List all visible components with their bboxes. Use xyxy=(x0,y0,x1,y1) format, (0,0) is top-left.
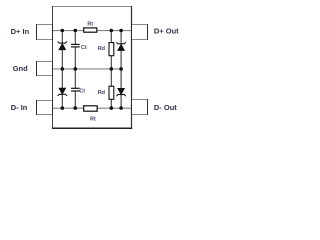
svg-text:D+ In: D+ In xyxy=(11,27,30,36)
svg-text:Ct: Ct xyxy=(81,45,87,51)
wire: column A vertical (left diodes) xyxy=(61,31,63,109)
zener diode top-left xyxy=(58,41,67,49)
resistor Rt (bottom) xyxy=(84,106,98,111)
svg-text:Ct: Ct xyxy=(79,89,85,95)
resistor Rt (top) xyxy=(84,28,97,32)
wire: top D+ line xyxy=(52,30,132,32)
wire: column B vertical upper (to cap Ct top) xyxy=(74,31,76,45)
svg-text:Gnd: Gnd xyxy=(13,64,28,73)
junction dot top wire col A xyxy=(61,29,65,33)
zener diode top-right xyxy=(116,42,125,50)
junction dot bottom wire col D xyxy=(119,106,123,110)
svg-text:D+ Out: D+ Out xyxy=(154,27,179,36)
svg-text:D- In: D- In xyxy=(11,103,28,112)
junction dot bottom wire col A xyxy=(61,106,65,110)
junction dot gnd rail col A xyxy=(61,67,65,71)
svg-text:Rd: Rd xyxy=(98,90,105,96)
junction dot top wire col D xyxy=(119,29,123,33)
junction dot gnd rail col B xyxy=(74,67,78,71)
wire: column C vertical (Rd resistors) xyxy=(110,31,112,109)
junction dot gnd rail col C xyxy=(110,67,114,71)
resistor Rd (top) xyxy=(109,43,114,56)
wire: column B vertical middle xyxy=(74,47,76,88)
zener diode bottom-right xyxy=(116,88,125,96)
junction dot bottom wire col B xyxy=(74,106,78,110)
zener diode bottom-left xyxy=(58,88,67,96)
capacitor Ct (bottom) plates xyxy=(71,88,80,91)
junction dot gnd rail col D xyxy=(119,67,123,71)
capacitor Ct (top) plates xyxy=(71,44,80,47)
wire: middle ground rail xyxy=(52,68,122,70)
pin box D+ In xyxy=(36,24,53,40)
pin box D- In xyxy=(36,100,53,115)
IC body outline U1 right edge xyxy=(131,6,133,129)
pin box D- Out xyxy=(131,99,148,115)
junction dot top wire col C xyxy=(110,29,114,33)
IC body outline U1 top edge xyxy=(52,6,132,8)
junction dot bottom wire col C xyxy=(110,106,114,110)
resistor Rd (bottom) xyxy=(109,86,114,99)
svg-text:Rt: Rt xyxy=(90,117,96,123)
wire: column D vertical (right diodes) xyxy=(120,31,122,109)
pin box D+ Out xyxy=(131,24,148,40)
junction dot top wire col B xyxy=(74,29,78,33)
wire: bottom D- line xyxy=(52,107,132,109)
svg-text:Rt: Rt xyxy=(87,21,93,27)
svg-text:D- Out: D- Out xyxy=(154,103,177,112)
wire: column B vertical lower xyxy=(74,91,76,108)
pin box Gnd xyxy=(36,61,53,76)
svg-text:Rd: Rd xyxy=(98,46,105,52)
IC body outline U1 left edge xyxy=(52,6,54,129)
IC body outline U1 bottom edge xyxy=(52,127,132,129)
